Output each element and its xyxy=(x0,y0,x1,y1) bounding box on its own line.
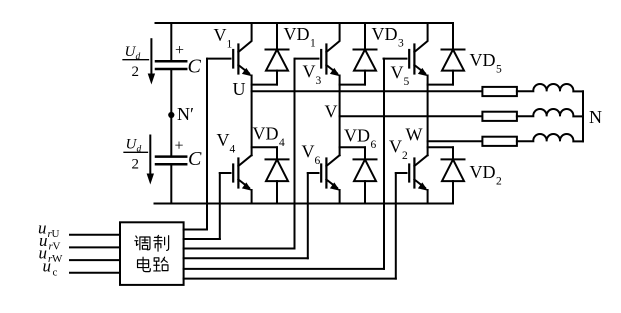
wire gate line V2 xyxy=(395,173,397,279)
voltage arrow Ud/2 upper xyxy=(148,39,155,84)
svg-text:V: V xyxy=(391,63,404,83)
fraction bar upper Ud/2 xyxy=(123,59,149,61)
svg-text:VD: VD xyxy=(470,50,496,70)
wire block output to V4 xyxy=(184,238,220,240)
wire neutral vertical N xyxy=(582,91,584,141)
svg-text:V: V xyxy=(214,25,227,45)
wire block output to V1 xyxy=(184,229,207,231)
resistor phase U xyxy=(482,87,517,96)
label input u_c xyxy=(43,257,58,279)
label input u_rW xyxy=(39,244,64,266)
svg-text:V: V xyxy=(302,142,315,162)
wire gate line V6 xyxy=(307,173,309,258)
svg-text:5: 5 xyxy=(404,76,410,88)
wire block output to V3 xyxy=(184,248,295,250)
svg-text:d: d xyxy=(136,52,141,62)
svg-text:VD: VD xyxy=(344,126,370,146)
wire V4 emitter to bottom bus xyxy=(251,190,253,204)
wire phase U line xyxy=(252,90,483,92)
transistor V1 emitter lead with arrow xyxy=(238,65,249,73)
svg-text:3: 3 xyxy=(398,38,404,50)
svg-text:V: V xyxy=(389,137,402,157)
svg-text:VD: VD xyxy=(284,24,310,44)
transistor V4 body bar xyxy=(237,159,239,188)
transistor V1 body bar xyxy=(237,45,239,74)
capacitor C1 xyxy=(156,61,186,69)
wire block output to V6 xyxy=(184,257,308,259)
transistor V4 gate bar xyxy=(232,165,234,182)
inductor phase W xyxy=(517,134,583,141)
svg-text:3: 3 xyxy=(316,75,322,87)
wire gate line V5 xyxy=(383,59,385,269)
wire bottom DC bus xyxy=(155,203,454,205)
svg-text:C: C xyxy=(188,148,202,170)
wire phase V line xyxy=(340,115,483,117)
svg-text:2: 2 xyxy=(132,157,140,173)
svg-text:VD: VD xyxy=(253,124,279,144)
resistor phase W xyxy=(482,137,517,146)
transistor V1 gate bar xyxy=(232,50,234,68)
wire block output to V2 xyxy=(184,278,396,280)
svg-text:V: V xyxy=(303,62,316,82)
wire input u_c xyxy=(70,272,120,274)
svg-text:W: W xyxy=(406,125,423,145)
wire gate line V1 xyxy=(206,59,208,230)
transistor V1 collector lead xyxy=(238,23,251,52)
svg-text:6: 6 xyxy=(371,139,377,151)
svg-text:VD: VD xyxy=(470,162,496,182)
transistor V4 gate lead xyxy=(220,172,231,174)
svg-text:N: N xyxy=(589,107,602,127)
svg-text:4: 4 xyxy=(230,144,236,156)
svg-text:U: U xyxy=(233,79,246,99)
label Ud/2 lower xyxy=(126,137,142,173)
svg-text:1: 1 xyxy=(227,39,233,51)
transistor V4 collector lead xyxy=(238,155,251,166)
transistor V4 emitter lead with arrow xyxy=(238,180,249,188)
wire gate line V3 xyxy=(294,59,296,249)
svg-text:U: U xyxy=(52,228,60,240)
voltage arrow Ud/2 lower xyxy=(147,136,154,185)
inductor phase V xyxy=(517,109,583,116)
svg-text:2: 2 xyxy=(132,64,140,80)
wire leg column (V1 emitter to V4 collector) xyxy=(251,76,253,156)
capacitor C2 xyxy=(156,157,186,165)
wire phase W line xyxy=(428,140,483,142)
resistor phase V xyxy=(482,112,517,121)
wire DC-link vertical upper segment xyxy=(170,23,172,60)
svg-text:c: c xyxy=(53,267,58,279)
svg-text:N′: N′ xyxy=(177,104,194,124)
wire DC-link vertical lower segment xyxy=(170,165,172,203)
svg-text:5: 5 xyxy=(496,64,502,76)
modulation circuit block xyxy=(120,222,184,285)
svg-text:+: + xyxy=(175,42,184,59)
svg-text:V: V xyxy=(53,241,61,253)
inductor phase U xyxy=(517,84,583,91)
svg-text:2: 2 xyxy=(402,150,408,162)
char 路 xyxy=(154,257,168,271)
wire top DC bus xyxy=(156,22,454,24)
svg-text:V: V xyxy=(325,102,338,122)
char 调 xyxy=(135,236,150,250)
svg-text:1: 1 xyxy=(310,38,316,50)
svg-text:u: u xyxy=(43,257,52,276)
svg-text:6: 6 xyxy=(315,155,321,167)
diode VD4 xyxy=(252,147,289,203)
svg-text:2: 2 xyxy=(496,176,502,188)
svg-text:4: 4 xyxy=(279,137,285,149)
diode VD1 xyxy=(252,23,289,85)
leg V devices (V3, VD3, V6, VD6) xyxy=(296,23,377,204)
wire input u_rW xyxy=(70,259,120,261)
svg-text:V: V xyxy=(217,130,230,150)
svg-text:d: d xyxy=(137,145,142,155)
wire block output to V5 xyxy=(184,268,384,270)
wire input u_rV xyxy=(70,246,120,248)
leg W devices (V5, VD5, V2, VD2) xyxy=(384,23,465,204)
wire gate line V4 xyxy=(219,173,221,239)
label Ud/2 upper xyxy=(125,44,141,80)
svg-text:W: W xyxy=(52,253,63,265)
leg U devices xyxy=(208,23,289,204)
wire DC-link vertical middle segment xyxy=(170,70,172,156)
svg-text:C: C xyxy=(188,56,202,78)
label input u_rV xyxy=(39,231,61,253)
char 制 xyxy=(154,235,169,251)
wire input u_rU xyxy=(70,234,120,236)
svg-text:+: + xyxy=(175,138,184,155)
fraction bar lower Ud/2 xyxy=(124,151,148,153)
node N' junction dot xyxy=(168,112,174,118)
transistor V1 gate lead xyxy=(208,58,231,60)
label input u_rU xyxy=(38,219,60,241)
svg-text:VD: VD xyxy=(372,24,398,44)
text 调制 电路 (modulation circuit) hand-drawn glyphs xyxy=(135,235,169,271)
char 电 xyxy=(138,257,151,271)
